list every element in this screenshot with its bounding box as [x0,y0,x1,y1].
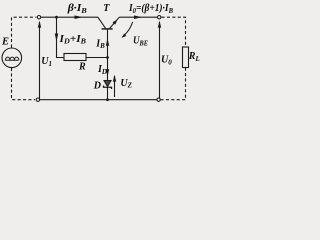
voltage arrow U0 [158,21,161,99]
current arrow beta*IB on top rail [75,15,83,19]
node input terminal bottom [36,98,39,101]
node junction top rail [55,16,58,19]
resistor RL [183,47,189,68]
svg-text:R: R [78,62,86,73]
wire dashed bottom-left from source E to input terminal [12,68,36,100]
wire top rail left (collector side) [41,16,98,18]
wire transistor base lead [107,29,109,57]
current arrow ID (diode) [106,69,109,77]
voltage arc UBE [122,22,132,37]
node input terminal top [37,16,40,19]
current arrow I0 on right rail [134,15,142,19]
node junction bottom rail [106,98,109,101]
wire dashed bottom-right from RL to output terminal [161,68,186,100]
transistor emitter arrow [112,19,117,25]
wire zener cathode to bottom rail [107,87,109,99]
wire node A down to zener anode [107,58,109,81]
zener diode D [104,81,112,89]
node junction base/R [106,56,109,59]
wire resistor R to node A [86,57,108,59]
source E (AC generator) [2,48,22,68]
resistor R [64,54,86,61]
wire dashed top-left from source E to input terminal [12,17,37,47]
node output terminal top [158,16,161,19]
UBE arrowhead [122,34,127,38]
svg-text:T: T [103,3,110,14]
current arrow IB (base) [106,38,109,46]
wire top rail right (emitter side) [119,16,157,18]
transistor T [98,17,119,29]
node output terminal bottom [157,98,160,101]
voltage arrow UZ [113,75,116,97]
voltage arrow U1 [38,21,41,99]
current arrow ID+IB [55,34,59,42]
wire vertical drop to resistor R [57,17,65,57]
svg-text:E: E [1,37,9,48]
svg-text:D: D [93,81,101,92]
wire dashed top-right from output terminal to RL [162,17,186,47]
wire bottom rail [40,99,157,101]
